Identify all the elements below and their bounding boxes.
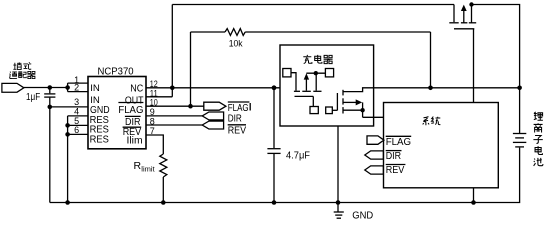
label wall adapter (Chinese) [9,62,35,78]
junction node IN split [65,85,70,90]
wall adapter plug J1 [2,83,24,92]
wire pin 6 [68,133,88,135]
transistor Q2 gate plate [295,95,314,97]
wire 10k right drop to battery rail [430,32,432,88]
transistor Q3 bulk arrow [343,99,362,105]
transistor Q1 bulk arrow [461,5,467,23]
junction node battery top [517,86,522,91]
svg-text:1μF: 1μF [26,92,40,103]
junction node Q3 source [360,108,364,112]
junction node system ground [471,200,476,205]
transistor Q1 channel dashes [449,22,476,24]
svg-text:10k: 10k [229,39,243,50]
junction node GND pin 3 [48,105,53,110]
junction node Q1 drain on top rail [469,2,473,6]
flag DIR at system box [365,151,384,159]
transistor Q1 source leg [453,5,455,23]
junction node C1 top [48,85,53,90]
wire square A to Q2 source [291,73,296,91]
wire Rlimit to ground rail [162,177,164,203]
resistor Rlimit [160,154,167,177]
label system (Chinese) [423,117,441,126]
flag FLAG output near IC [204,102,226,110]
wire Q3 source vertical [362,102,364,117]
transistor Q1 drain leg [471,5,473,23]
wire Q1 gate to system box [473,29,475,103]
svg-text:REV: REV [228,125,247,136]
ground symbol [334,203,344,219]
charger terminal square B [325,69,333,77]
wire pin 1 [68,82,88,84]
resistor R1 10k [225,29,245,36]
capacitor C2 4.7uF [267,88,280,203]
junction node C2 ground [272,200,277,205]
wire C1 bottom to ground rail [49,107,51,203]
wire pin 10 FLAG [146,105,204,107]
transistor Q3 channel dashes [342,90,344,114]
wire Q2 top bar to square B [306,72,325,74]
wire pin 12 NC rail to charger [146,87,281,89]
wire 10k left segment [191,31,226,33]
charger terminal square A [283,69,291,77]
label charger (Chinese) [303,55,332,64]
svg-text:IN: IN [90,83,100,94]
junction node pin 6 [65,132,70,137]
svg-text:FLAG: FLAG [118,105,143,116]
svg-text:DIR: DIR [228,114,242,125]
wire system box to ground rail [473,188,475,203]
junction node Rlimit ground [161,200,166,205]
svg-text:FLAG: FLAG [386,137,412,148]
transistor Q2 bulk arrow [304,73,309,90]
wire battery rail [374,87,520,89]
label lithium-ion battery (Chinese vertical) [533,112,542,166]
junction node NC rail riser [170,86,175,91]
wire 10k left drop [190,32,192,106]
wire pin 4 [68,115,88,117]
svg-text:2: 2 [74,83,79,93]
svg-text:FLAG: FLAG [228,103,249,114]
wire pin 7 Ilim [146,135,163,154]
wire pin 3 GND [50,106,88,108]
charger box [280,45,374,126]
wire 10k right segment [245,31,430,33]
charger terminal square D [326,107,333,114]
flag REV at system box [365,166,384,174]
flag REV input near IC [202,121,223,129]
wire Q2 gate to square C [312,96,314,106]
wire battery rail to battery top [519,88,521,133]
wire RES bus vertical to ground rail [67,116,69,203]
wire pin 5 [68,124,88,126]
svg-text:Ilim: Ilim [127,135,143,146]
transistor Q3 gate plate [336,93,338,110]
IC U1 NCP370 box [88,77,146,149]
svg-text:limit: limit [141,165,155,174]
battery BT1 [513,134,526,147]
capacitor C1 [44,88,55,107]
system box [384,103,499,188]
junction node 10k pullup on battery rail [428,86,433,91]
junction node C2 top [272,85,277,90]
wire adapter output [24,87,68,89]
wire charger bottom to ground rail [337,126,339,203]
wire top rail right segment [472,5,520,88]
wire top rail [172,4,454,6]
svg-text:REV: REV [386,165,405,176]
svg-text:4: 4 [74,106,79,116]
junction node FLAG pullup [188,104,193,109]
flag DIR input near IC [202,112,223,120]
junction node pin 5 [65,123,70,128]
svg-text:NCP370: NCP370 [98,67,135,78]
transistor Q1 gate plate [454,28,474,30]
junction node RES bus ground [65,200,70,205]
svg-text:4.7μF: 4.7μF [286,151,310,162]
flag FLAG at system box [367,136,384,144]
svg-text:NC: NC [130,83,143,94]
transistor Q2 drain leg [315,73,317,90]
wire IN split vertical [67,83,69,92]
svg-text:RES: RES [90,134,110,145]
wire pin 8 REV [146,124,202,126]
svg-text:6: 6 [74,125,79,135]
transistor Q2 channel dashes [294,90,322,92]
transistor Q3 drain wire with jog [343,88,374,92]
wire pin 2 [68,91,88,93]
transistor Q3 source wire [343,109,363,111]
svg-text:DIR: DIR [386,151,401,162]
wire pin 9 DIR [146,115,202,117]
charger terminal square C [310,107,318,114]
junction node Q2 drain [314,71,318,75]
wire OUT riser to top rail [171,5,173,97]
svg-text:R: R [134,160,142,172]
wire square D to Q3 gate [332,109,337,111]
svg-text:GND: GND [352,210,373,221]
wire battery bottom to ground rail [50,148,520,203]
wire charger output to system box [363,116,384,118]
wire pin 11 OUT stub [146,96,172,98]
junction node charger ground [336,200,341,205]
